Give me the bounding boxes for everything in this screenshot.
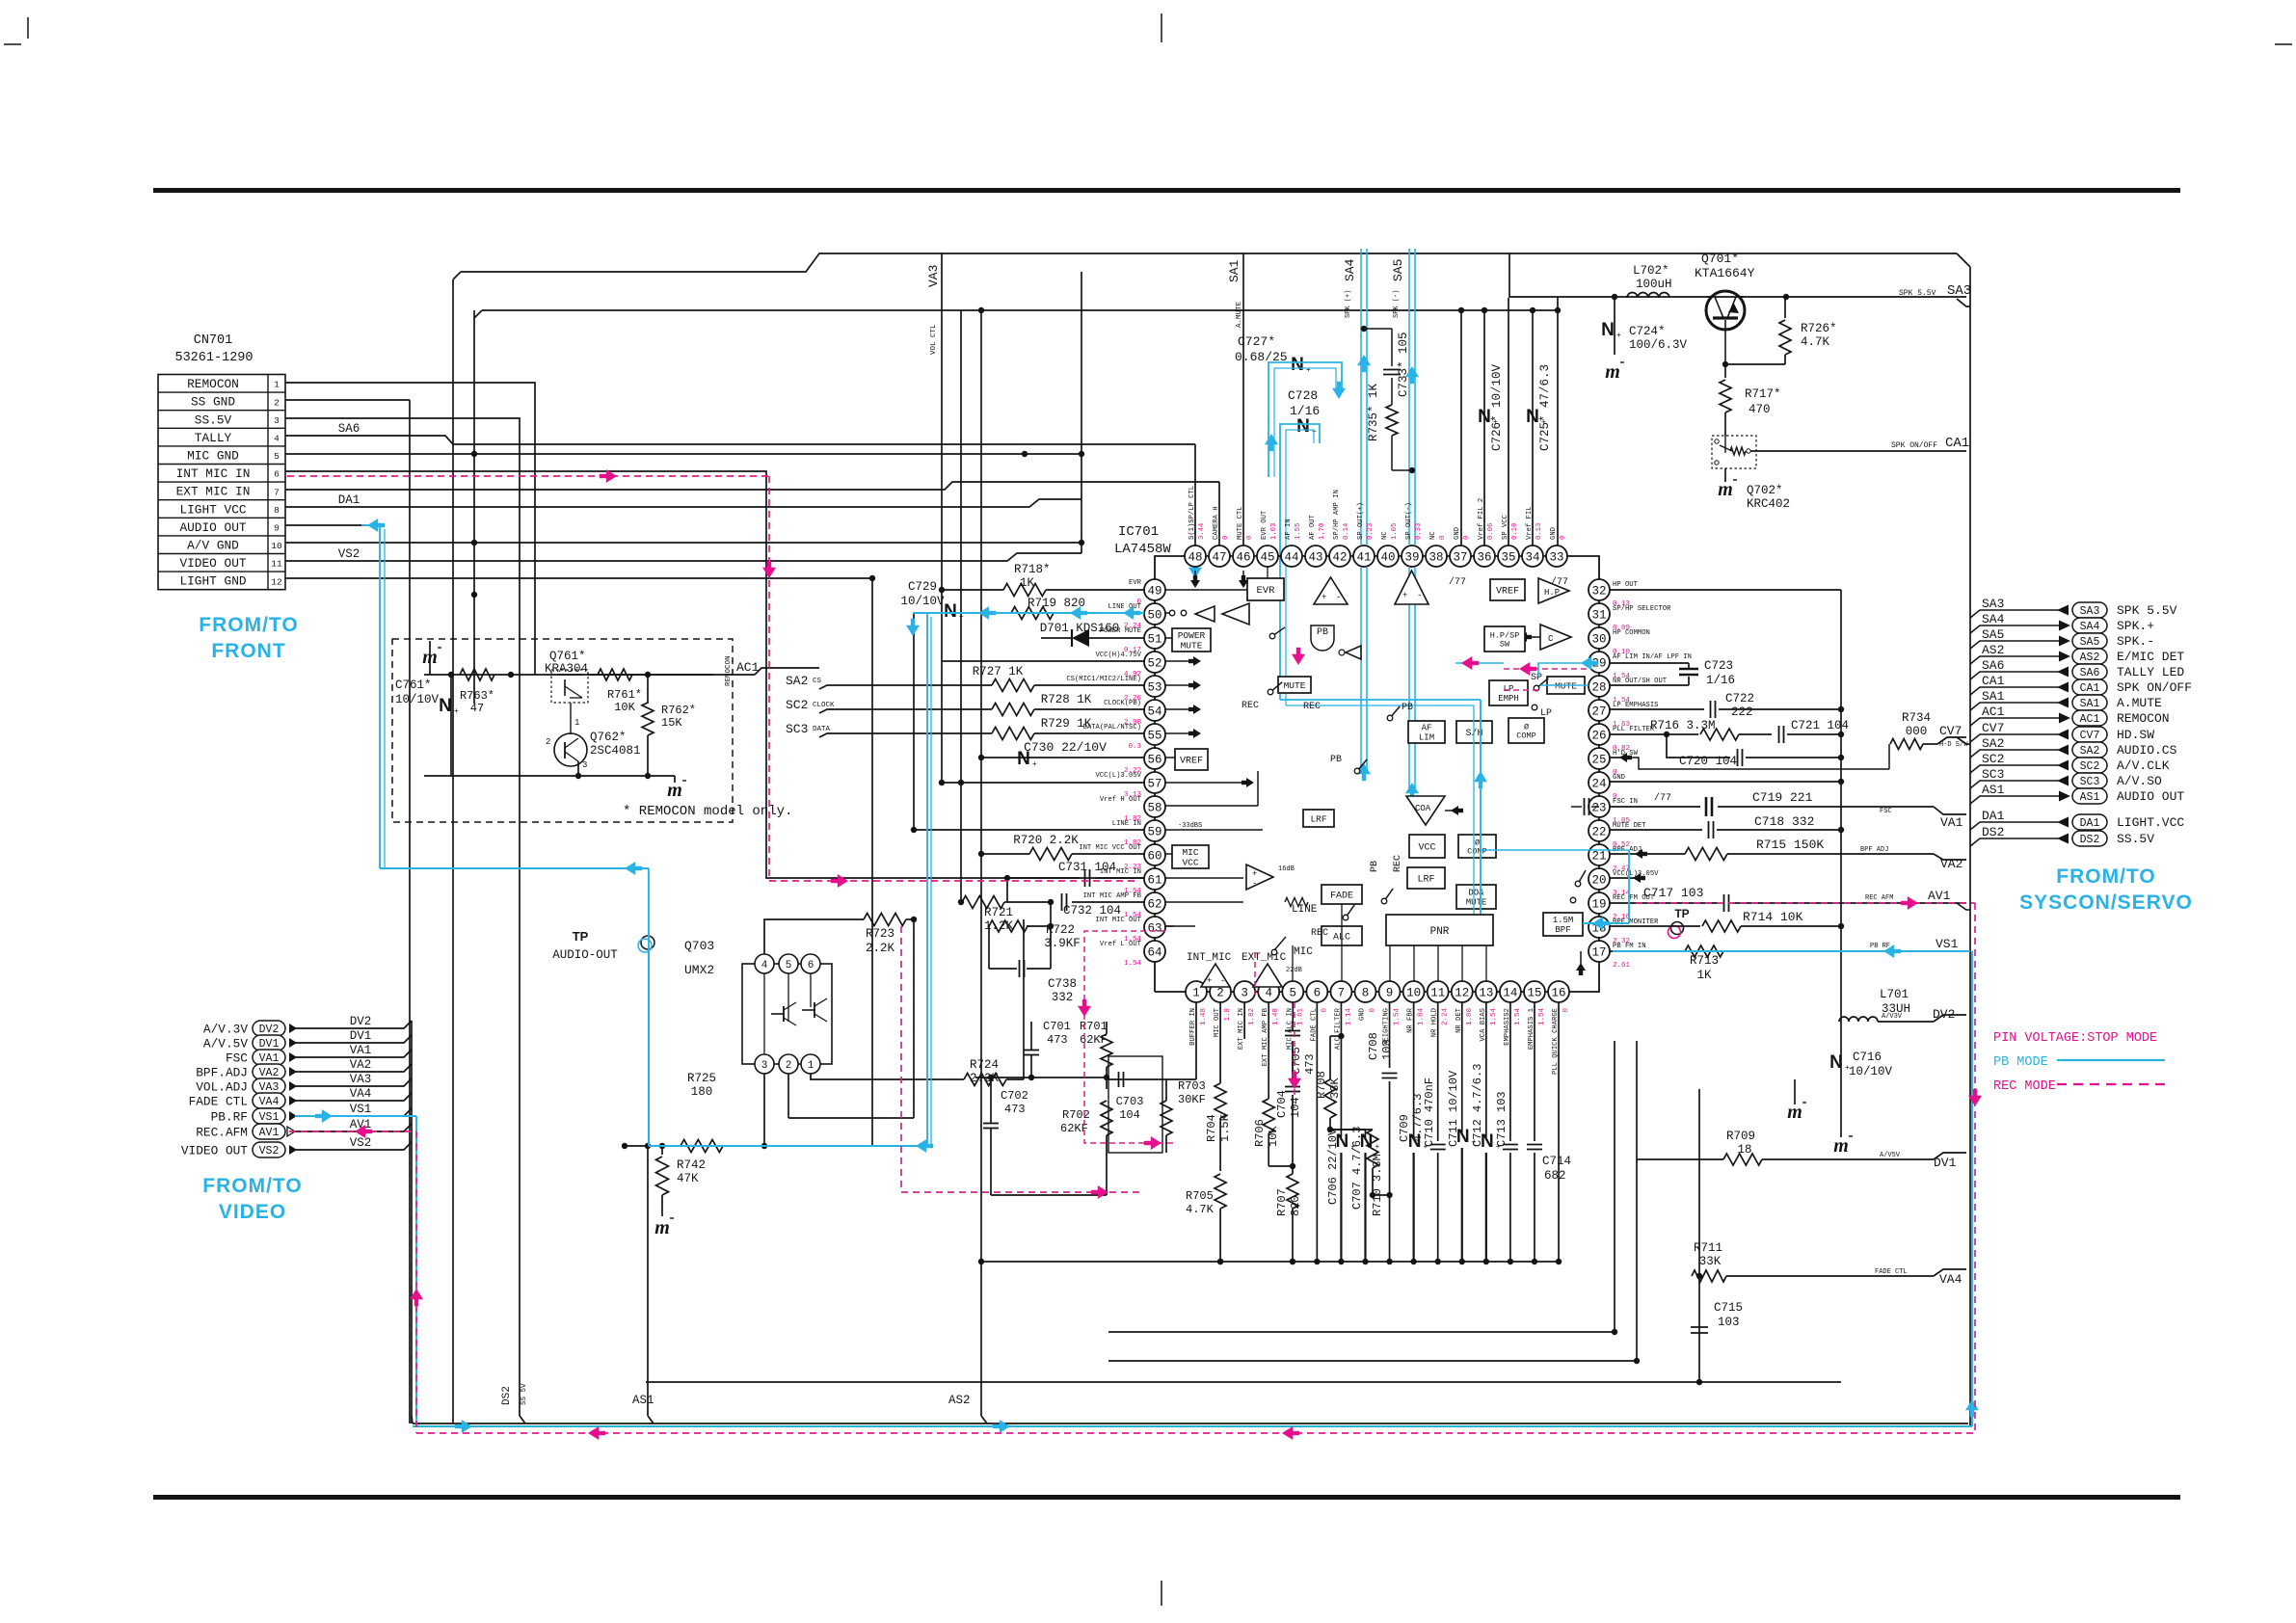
- pin 1 IC701: [1186, 981, 1207, 1002]
- svg-text:16dB: 16dB: [1278, 865, 1295, 873]
- ground remocon right: [648, 775, 675, 777]
- pin 36 IC701: [1474, 545, 1495, 567]
- pin 50 IC701: [1144, 603, 1165, 625]
- svg-text:R715 150K: R715 150K: [1756, 838, 1824, 852]
- svg-text:+: +: [1306, 365, 1311, 374]
- svg-text:/77: /77: [1654, 792, 1671, 804]
- svg-text:BPF MONITER: BPF MONITER: [1613, 918, 1659, 926]
- wire bus y322: [482, 309, 1558, 311]
- wire internal 56 vref: [1165, 757, 1175, 758]
- svg-text:FADE CTL: FADE CTL: [189, 1095, 248, 1109]
- svg-text:SP/HP AMP IN: SP/HP AMP IN: [1333, 490, 1341, 540]
- wire left bus x470 (outer border left): [452, 279, 454, 1423]
- svg-text:SC2: SC2: [1982, 752, 2004, 766]
- REC route dashed inner loop: [1084, 931, 1174, 1143]
- svg-text:55: 55: [1147, 730, 1161, 743]
- svg-text:AS1: AS1: [2080, 791, 2100, 804]
- Q703 internal transistors: [763, 973, 765, 1054]
- wire remocon rail: [424, 674, 733, 676]
- PB route cyan LINE OUT: [913, 612, 1144, 614]
- pin 33 IC701: [1546, 545, 1567, 567]
- svg-text:4.7K: 4.7K: [1186, 1203, 1215, 1216]
- svg-text:INT MIC OUT: INT MIC OUT: [1096, 917, 1142, 924]
- PB route cyan C729 drop: [926, 613, 928, 1146]
- svg-text:180: 180: [691, 1085, 713, 1099]
- svg-text:A/V.CLK: A/V.CLK: [2117, 758, 2170, 773]
- svg-text:22: 22: [1591, 826, 1606, 839]
- svg-text:15: 15: [1527, 987, 1541, 1000]
- svg-text:1.54: 1.54: [1514, 1008, 1522, 1026]
- svg-text:LP EMPHASIS: LP EMPHASIS: [1613, 702, 1658, 709]
- svg-text:SPK (+): SPK (+): [1345, 290, 1352, 318]
- svg-text:R729 1K: R729 1K: [1041, 717, 1092, 731]
- svg-text:C731 104: C731 104: [1058, 861, 1116, 874]
- IC701 body outline: [1155, 556, 1599, 992]
- svg-text:1.54: 1.54: [1124, 960, 1142, 968]
- pin 61 IC701: [1144, 868, 1165, 890]
- PB route cyan 1.5M BPF: [1583, 922, 1629, 924]
- svg-text:N: N: [1296, 416, 1310, 437]
- svg-text:LINE: LINE: [1292, 904, 1318, 916]
- svg-text:MIC: MIC: [1294, 946, 1313, 958]
- svg-text:SYSCON/SERVO: SYSCON/SERVO: [2019, 891, 2193, 914]
- svg-text:DA1: DA1: [1982, 809, 2005, 823]
- PB route cyan S/H riser: [1480, 700, 1482, 914]
- svg-text:AUDIO OUT: AUDIO OUT: [179, 520, 246, 535]
- svg-text:LIM: LIM: [1419, 733, 1434, 743]
- svg-text:1.5M: 1.5M: [1553, 916, 1574, 925]
- svg-text:REMOCON: REMOCON: [187, 377, 239, 391]
- wire border top inner: [461, 253, 1957, 272]
- svg-text:VIDEO OUT: VIDEO OUT: [181, 1144, 248, 1158]
- svg-text:AF IN: AF IN: [1285, 519, 1293, 540]
- svg-text:FRONT: FRONT: [211, 640, 285, 662]
- wire pin57: [942, 782, 1144, 784]
- svg-text:-: -: [1252, 879, 1257, 889]
- block LRF small: [1303, 810, 1334, 827]
- block LRF 2: [1407, 867, 1445, 889]
- svg-text:64: 64: [1147, 946, 1161, 960]
- wire internal 54 arrow: [1165, 708, 1195, 710]
- svg-text:* REMOCON model only.: * REMOCON model only.: [623, 804, 792, 819]
- svg-text:0.13: 0.13: [1535, 523, 1543, 540]
- svg-text:11: 11: [1430, 987, 1445, 1000]
- svg-text:AF: AF: [1422, 724, 1432, 733]
- pin 40 IC701: [1377, 545, 1399, 567]
- svg-text:C710 470nF: C710 470nF: [1423, 1078, 1436, 1147]
- svg-text:SA4: SA4: [2080, 621, 2100, 633]
- wire right bus x1910: [1840, 590, 1842, 1137]
- svg-text:1.82: 1.82: [1248, 1008, 1256, 1025]
- svg-text:DA1: DA1: [338, 493, 360, 507]
- svg-text:7: 7: [274, 487, 280, 497]
- svg-text:40: 40: [1380, 551, 1395, 565]
- pin 10 IC701: [1403, 981, 1425, 1002]
- svg-text:N: N: [944, 601, 957, 622]
- svg-text:1.55: 1.55: [1295, 523, 1302, 540]
- block FADE: [1322, 885, 1362, 904]
- amp feedback box small: [1108, 1056, 1162, 1153]
- svg-text:CA1: CA1: [2080, 682, 2100, 695]
- svg-text:DV1: DV1: [350, 1029, 372, 1043]
- svg-text:COMP: COMP: [1467, 847, 1486, 857]
- svg-text:FSC: FSC: [226, 1051, 248, 1066]
- page crop mark top-left: [27, 17, 29, 39]
- svg-text:36: 36: [1477, 551, 1491, 565]
- svg-text:SS.5V: SS.5V: [195, 412, 232, 427]
- resistor R763: [460, 669, 494, 680]
- pin 25 IC701: [1589, 748, 1610, 769]
- svg-text:PNR: PNR: [1430, 926, 1450, 938]
- svg-text:MIC GND: MIC GND: [187, 449, 239, 464]
- transistor Q702 (digital): [1712, 436, 1756, 468]
- svg-text:REC MODE: REC MODE: [1993, 1079, 2056, 1094]
- svg-text:CA1: CA1: [1982, 674, 2005, 688]
- svg-text:VREF: VREF: [1180, 757, 1203, 767]
- svg-text:AC1: AC1: [1982, 705, 2005, 719]
- svg-text:C701: C701: [1043, 1020, 1071, 1033]
- svg-text:MUTE: MUTE: [1181, 641, 1203, 652]
- svg-text:32: 32: [1591, 585, 1606, 599]
- svg-text:+: +: [1032, 759, 1037, 768]
- svg-text:104: 104: [1289, 1097, 1302, 1118]
- svg-text:A/V.SO: A/V.SO: [2117, 774, 2162, 788]
- svg-text:9: 9: [1386, 987, 1394, 1000]
- svg-text:SA3: SA3: [2080, 605, 2100, 618]
- svg-text:H-D S/W: H-D S/W: [1939, 741, 1968, 749]
- svg-text:SP OUT(+): SP OUT(+): [1357, 502, 1365, 540]
- svg-text:C729: C729: [908, 580, 937, 594]
- amp C: [1540, 625, 1571, 650]
- svg-text:52: 52: [1147, 657, 1161, 671]
- svg-text:REC: REC: [1303, 702, 1321, 712]
- svg-text:R725: R725: [687, 1072, 716, 1085]
- svg-text:43: 43: [1308, 551, 1322, 565]
- block MIC VCC: [1172, 845, 1209, 868]
- svg-text:CN701: CN701: [194, 333, 233, 348]
- svg-text:0: 0: [1222, 536, 1230, 540]
- svg-text:R709: R709: [1726, 1130, 1755, 1143]
- svg-text:VA4: VA4: [1939, 1272, 1962, 1287]
- wire pin32 HP OUT to bus: [1610, 589, 1841, 591]
- svg-text:A/V.5V: A/V.5V: [203, 1037, 248, 1051]
- svg-text:REC: REC: [1311, 928, 1328, 939]
- pin 31 IC701: [1589, 603, 1610, 625]
- svg-text:EMPH: EMPH: [1498, 694, 1519, 704]
- svg-text:C713 103: C713 103: [1495, 1091, 1508, 1147]
- svg-text:PB: PB: [1370, 861, 1380, 872]
- pin 6 IC701: [1306, 981, 1327, 1002]
- svg-text:470: 470: [1749, 403, 1771, 416]
- block EVR: [1247, 578, 1284, 600]
- svg-text:8: 8: [1362, 987, 1370, 1000]
- svg-text:CLOCK: CLOCK: [813, 702, 835, 709]
- svg-text:COMP: COMP: [1516, 732, 1535, 741]
- svg-text:1.54: 1.54: [1490, 1008, 1498, 1026]
- block VCC: [1409, 835, 1445, 858]
- svg-text:C703: C703: [1116, 1095, 1144, 1108]
- svg-text:REC.AFM: REC.AFM: [196, 1126, 248, 1140]
- svg-text:+: +: [1493, 417, 1498, 426]
- svg-text:CV7: CV7: [1982, 721, 2004, 735]
- wire bus x997: [960, 310, 962, 902]
- switch REC/PB mid: [1269, 633, 1275, 639]
- pin 9 IC701: [1379, 981, 1401, 1002]
- svg-text:REMOCON: REMOCON: [2117, 711, 2170, 726]
- svg-text:19: 19: [1591, 898, 1606, 912]
- svg-text:m: m: [1787, 1102, 1802, 1123]
- pin 5 IC701: [1282, 981, 1303, 1002]
- svg-text:13: 13: [1479, 987, 1493, 1000]
- pin 18 IC701: [1589, 917, 1610, 938]
- wire pin61 vertical: [1006, 878, 1008, 902]
- wire bus x905 LIGHT GND down: [871, 578, 873, 1146]
- svg-text:1.48: 1.48: [1272, 1008, 1280, 1025]
- REC route dashed pin63 to ALC: [1254, 952, 1256, 995]
- svg-text:CA1: CA1: [1945, 436, 1969, 451]
- svg-text:R711: R711: [1694, 1241, 1722, 1255]
- svg-text:53: 53: [1147, 681, 1161, 695]
- wire internal 59: [1165, 829, 1263, 831]
- svg-text:DATA(PAL/NTSC): DATA(PAL/NTSC): [1083, 724, 1141, 732]
- svg-text:PB MODE: PB MODE: [1993, 1055, 2048, 1070]
- pin 56 IC701: [1144, 748, 1165, 769]
- svg-text:LINE OUT: LINE OUT: [1108, 603, 1141, 611]
- svg-text:SC3: SC3: [2080, 776, 2100, 788]
- svg-text:R721: R721: [984, 906, 1013, 919]
- pin 14 IC701: [1500, 981, 1521, 1002]
- svg-text:IC701: IC701: [1118, 524, 1159, 540]
- svg-text:37: 37: [1453, 551, 1467, 565]
- svg-text:1.54: 1.54: [1538, 1008, 1546, 1026]
- svg-text:AS1: AS1: [1982, 783, 2005, 797]
- pin 32 IC701: [1589, 579, 1610, 600]
- svg-text:DV2: DV2: [259, 1024, 280, 1036]
- svg-text:Q702*: Q702*: [1747, 484, 1783, 497]
- svg-text:1.70: 1.70: [1319, 523, 1326, 540]
- wire internal 53 arrow: [1165, 684, 1195, 686]
- svg-text:C704: C704: [1275, 1090, 1289, 1118]
- svg-text:10: 10: [1406, 987, 1421, 1000]
- svg-text:473: 473: [1004, 1103, 1026, 1116]
- pin 42 IC701: [1329, 545, 1350, 567]
- svg-text:+: +: [1252, 869, 1257, 879]
- wire pin25 HD SW: [1610, 757, 1625, 758]
- svg-text:C721 104: C721 104: [1791, 719, 1849, 732]
- svg-text:SPK 5.5V: SPK 5.5V: [1899, 289, 1936, 298]
- svg-text:27: 27: [1591, 705, 1606, 719]
- block VREF top: [1490, 579, 1525, 600]
- svg-text:PLL FILTER: PLL FILTER: [1613, 726, 1655, 733]
- svg-text:0: 0: [1463, 536, 1471, 540]
- svg-text:45: 45: [1260, 551, 1274, 565]
- wire internal 61: [1165, 877, 1243, 879]
- amp 16dB: [1246, 865, 1273, 890]
- svg-text:VS1: VS1: [1936, 937, 1959, 951]
- svg-text:33K: 33K: [1699, 1255, 1722, 1268]
- svg-text:10: 10: [271, 541, 282, 551]
- svg-text:2.2K: 2.2K: [866, 942, 895, 955]
- pin 2 IC701: [1210, 981, 1231, 1002]
- wire pin6 down: [1316, 1002, 1318, 1262]
- svg-text:AS2: AS2: [948, 1394, 971, 1407]
- wire pin47 up: [1218, 482, 1220, 545]
- svg-text:N: N: [1291, 355, 1304, 375]
- svg-text:C726* 10/10V: C726* 10/10V: [1490, 363, 1504, 451]
- svg-text:VA2: VA2: [350, 1058, 372, 1072]
- svg-text:MUTE DET: MUTE DET: [1613, 822, 1646, 830]
- wire x1516 down to pin37: [1460, 310, 1462, 545]
- svg-text:N: N: [1829, 1052, 1843, 1073]
- pin 34 IC701: [1522, 545, 1543, 567]
- svg-text:38: 38: [1428, 551, 1443, 565]
- svg-text:SPK 5.5V: SPK 5.5V: [2117, 603, 2177, 618]
- svg-text:10/10V: 10/10V: [900, 595, 945, 608]
- svg-text:100uH: 100uH: [1636, 278, 1672, 291]
- svg-text:C738: C738: [1048, 977, 1077, 991]
- ground pin24: [1610, 781, 1841, 783]
- svg-text:+: +: [1845, 1063, 1850, 1072]
- svg-text:3: 3: [1241, 987, 1248, 1000]
- wire internal 60: [1165, 853, 1172, 855]
- svg-text:AS1: AS1: [632, 1394, 654, 1407]
- svg-text:35: 35: [1501, 551, 1515, 565]
- pin 12 IC701: [1452, 981, 1473, 1002]
- svg-text:47K: 47K: [677, 1172, 699, 1185]
- PB route cyan bottom bus: [413, 1425, 1972, 1427]
- wire bottom return1: [1558, 1261, 1560, 1263]
- svg-text:CV7: CV7: [1939, 724, 1962, 738]
- wire CN701-9 AUDIO OUT: [285, 524, 380, 526]
- svg-text:63: 63: [1147, 922, 1161, 936]
- svg-text:SA4: SA4: [1343, 258, 1357, 281]
- svg-text:0.06: 0.06: [1487, 523, 1495, 540]
- wire q703 pin3 down: [763, 1074, 765, 1146]
- wire long return y1434: [646, 1381, 1841, 1383]
- svg-text:60: 60: [1147, 850, 1161, 864]
- PB route cyan pin17: [1613, 950, 1970, 952]
- pin 48 IC701: [1185, 545, 1206, 567]
- svg-text:103: 103: [1718, 1316, 1740, 1329]
- pin 64 IC701: [1144, 941, 1165, 962]
- svg-text:SA1: SA1: [2080, 698, 2100, 710]
- cyan loop C728: [1280, 424, 1320, 700]
- block ALC: [1322, 926, 1362, 945]
- svg-text:R707: R707: [1275, 1188, 1289, 1216]
- svg-text:0: 0: [1321, 1008, 1328, 1013]
- svg-text:+: +: [1322, 593, 1326, 602]
- svg-text:+: +: [1402, 591, 1407, 600]
- wire internal 57 arrow: [1165, 782, 1248, 784]
- pin 29 IC701: [1589, 652, 1610, 673]
- svg-text:AV1: AV1: [1928, 889, 1951, 903]
- svg-text:VA3: VA3: [926, 265, 941, 287]
- wire CN701-12 LIGHT GND: [285, 577, 872, 579]
- svg-text:N: N: [1526, 407, 1539, 427]
- svg-text:EXT MIC IN: EXT MIC IN: [176, 485, 251, 499]
- svg-text:61: 61: [1147, 874, 1161, 888]
- svg-text:14: 14: [1503, 987, 1517, 1000]
- svg-text:AS2: AS2: [2080, 652, 2100, 664]
- wire pin48 up: [1025, 443, 1195, 445]
- svg-text:10/10V: 10/10V: [1849, 1065, 1893, 1078]
- svg-text:SA3: SA3: [1947, 283, 1971, 299]
- wire internal 51: [1165, 637, 1172, 639]
- svg-text:2SC4081: 2SC4081: [590, 744, 641, 758]
- svg-text:VA1: VA1: [259, 1052, 280, 1065]
- svg-text:56: 56: [1147, 754, 1161, 767]
- wire CN701-2 SS GND: [285, 399, 410, 401]
- wire SPK5.5V rail: [1509, 253, 1966, 297]
- svg-text:SA4: SA4: [1982, 612, 2005, 626]
- svg-text:62: 62: [1147, 898, 1161, 912]
- svg-text:COA: COA: [1415, 804, 1431, 813]
- svg-text:R716 3.3M: R716 3.3M: [1650, 719, 1716, 732]
- svg-text:473: 473: [1047, 1033, 1068, 1047]
- svg-text:4.7K: 4.7K: [1801, 335, 1830, 349]
- svg-text:VS1: VS1: [350, 1103, 372, 1116]
- svg-text:PB.RF: PB.RF: [211, 1110, 248, 1125]
- svg-text:m: m: [654, 1217, 670, 1238]
- svg-text:INT MIC IN: INT MIC IN: [176, 466, 251, 481]
- pin 37 IC701: [1450, 545, 1471, 567]
- svg-text:SPK.+: SPK.+: [2117, 619, 2154, 633]
- svg-text:0: 0: [1562, 1008, 1570, 1013]
- block 1.5M BPF: [1543, 913, 1583, 936]
- svg-text:BPF: BPF: [1555, 925, 1570, 935]
- wire CN701-10 A/V GND: [285, 542, 1081, 544]
- resistor R717: [1724, 364, 1726, 378]
- svg-text:222: 222: [1731, 705, 1753, 719]
- svg-text:N: N: [1017, 749, 1030, 769]
- svg-text:53261-1290: 53261-1290: [174, 351, 253, 365]
- svg-text:R727 1K: R727 1K: [973, 665, 1024, 678]
- svg-text:47: 47: [470, 702, 484, 715]
- svg-text:2: 2: [1216, 987, 1224, 1000]
- ground in remocon box: [429, 641, 431, 675]
- inverter: [1346, 646, 1361, 659]
- svg-text:C716: C716: [1853, 1051, 1882, 1064]
- pin 62 IC701: [1144, 892, 1165, 914]
- svg-text:0.33: 0.33: [1415, 523, 1423, 540]
- svg-text:Vref L OUT: Vref L OUT: [1100, 941, 1142, 948]
- switch mic sel: [1271, 949, 1277, 955]
- REC route dashed to pin61: [769, 880, 1139, 882]
- wire bus x492: [473, 310, 475, 704]
- block DO& MUTE: [1456, 885, 1496, 909]
- svg-text:Vref FIL 2: Vref FIL 2: [1478, 498, 1485, 540]
- svg-text:N: N: [1408, 1131, 1422, 1152]
- pin 15 IC701: [1524, 981, 1545, 1002]
- svg-text:3.9KF: 3.9KF: [1044, 937, 1081, 950]
- pin 41 IC701: [1353, 545, 1375, 567]
- switch group center: [1354, 768, 1360, 774]
- svg-text:VS2: VS2: [338, 547, 360, 561]
- svg-text:R763*: R763*: [460, 689, 494, 703]
- svg-text:C702: C702: [1001, 1089, 1028, 1103]
- svg-text:INT MIC AMP FB: INT MIC AMP FB: [1083, 892, 1142, 900]
- svg-text:HD.SW: HD.SW: [2117, 728, 2154, 742]
- block VREF left: [1175, 749, 1208, 770]
- svg-text:VS2: VS2: [259, 1145, 280, 1157]
- svg-text:100/6.3V: 100/6.3V: [1629, 338, 1688, 352]
- svg-text:POWER: POWER: [1178, 630, 1206, 641]
- svg-text:10K: 10K: [614, 701, 635, 714]
- svg-text:20: 20: [1591, 874, 1606, 888]
- svg-text:1.48: 1.48: [1200, 1008, 1208, 1025]
- cyan loop C727: [1268, 362, 1342, 477]
- page crop mark right-center: [2275, 43, 2292, 45]
